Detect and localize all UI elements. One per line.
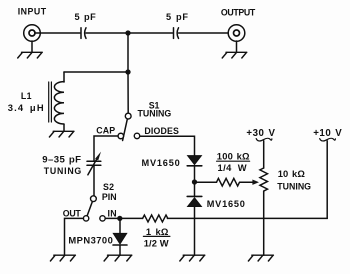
wire (326, 141, 328, 219)
svg-text:MPN3700: MPN3700 (68, 234, 113, 245)
resistor 1 kOhm (143, 215, 168, 222)
svg-text:1 kΩ: 1 kΩ (146, 226, 169, 237)
capacitor 5 pF (output) (174, 28, 179, 39)
fraction bar (100 kOhm / 1/4 W) (217, 160, 250, 162)
switch S2 OUT contact (83, 216, 88, 221)
svg-text:S2: S2 (103, 182, 114, 192)
svg-text:CAP: CAP (96, 126, 115, 136)
wiper arrow wire (240, 181, 254, 183)
wire (140, 136, 195, 155)
switch S2 IN contact (100, 216, 105, 221)
wiper arrowhead (252, 180, 259, 185)
output connector (228, 25, 245, 42)
node D junction dot (192, 179, 197, 184)
variable capacitor 9-35 pF plates (87, 161, 101, 165)
ground under input (18, 52, 43, 58)
svg-text:MV1650: MV1650 (207, 199, 246, 209)
svg-text:1/2 W: 1/2 W (144, 238, 169, 249)
fraction bar (1 kOhm / 1/2 W) (143, 235, 170, 237)
svg-text:10 kΩ: 10 kΩ (278, 168, 306, 179)
wire (195, 181, 217, 183)
ground under MV1650 (180, 255, 205, 261)
wire (120, 217, 143, 219)
node C junction dot (117, 216, 122, 221)
wire (263, 141, 265, 168)
inductor L1 (54, 72, 64, 131)
ground under inductor (49, 131, 74, 137)
svg-text:+30 V: +30 V (246, 128, 275, 139)
wire (167, 217, 327, 219)
switch S2 common contact (91, 196, 97, 202)
svg-text:PIN: PIN (102, 192, 117, 202)
variable capacitor arrow (88, 152, 101, 175)
svg-text:+10 V: +10 V (313, 128, 342, 139)
varactor MV1650 (top) (187, 156, 202, 166)
wire (194, 166, 196, 182)
svg-text:100 kΩ: 100 kΩ (217, 150, 250, 161)
ground under OUT (50, 255, 75, 261)
wire (127, 33, 129, 72)
svg-text:OUT: OUT (63, 209, 82, 219)
svg-text:5 pF: 5 pF (75, 12, 97, 22)
node B junction dot (125, 69, 130, 74)
capacitor 5 pF (input) (81, 28, 86, 39)
svg-text:TUNING: TUNING (138, 109, 172, 119)
potentiometer 10 kOhm (260, 168, 268, 191)
switch S1 CAP contact (118, 133, 124, 139)
ground under pot (248, 255, 273, 261)
+10 V terminal (320, 138, 336, 141)
diode MPN3700 (113, 218, 127, 255)
svg-text:3.4 μH: 3.4 μH (8, 102, 45, 113)
wire (64, 71, 128, 73)
wire (94, 136, 118, 161)
svg-text:TUNING: TUNING (44, 166, 82, 176)
svg-text:TUNING: TUNING (277, 182, 311, 192)
node A junction dot (125, 30, 130, 35)
svg-text:1/4 W: 1/4 W (218, 162, 248, 173)
switch S1 lever (123, 119, 128, 140)
wire (263, 191, 265, 255)
wire (127, 72, 129, 113)
varactor MV1650 (bottom) (187, 196, 202, 206)
wire (194, 207, 196, 256)
input connector (24, 25, 41, 42)
svg-text:DIODES: DIODES (144, 126, 179, 136)
wire (31, 41, 33, 52)
+30 V terminal (256, 138, 272, 141)
switch S1 DIODES contact (134, 133, 140, 139)
ground under MPN3700 (104, 255, 132, 261)
svg-text:9–35 pF: 9–35 pF (42, 155, 81, 166)
switch S1 common contact (125, 113, 131, 119)
wire (86, 32, 173, 34)
wire (65, 218, 84, 255)
resistor 100 kOhm (217, 178, 240, 186)
svg-text:L1: L1 (21, 91, 32, 101)
svg-text:IN: IN (108, 208, 117, 218)
ground under output (222, 52, 247, 58)
switch S2 lever (87, 202, 92, 216)
svg-text:INPUT: INPUT (18, 7, 47, 17)
wire (105, 217, 120, 219)
svg-text:MV1650: MV1650 (142, 158, 181, 168)
svg-text:5 pF: 5 pF (166, 12, 189, 22)
wire (179, 32, 229, 34)
inductor core lines (49, 82, 52, 122)
wire (35, 32, 80, 34)
svg-text:OUTPUT: OUTPUT (221, 7, 256, 17)
wire (93, 165, 95, 195)
wire (194, 182, 196, 196)
wire (236, 41, 238, 52)
